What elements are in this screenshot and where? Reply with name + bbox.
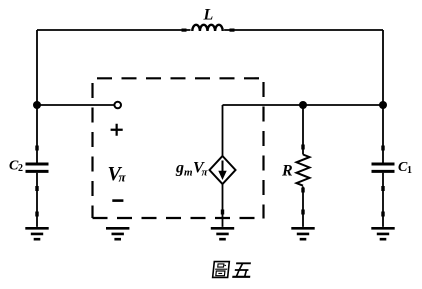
svg-text:π: π [119,169,127,184]
svg-text:m: m [184,167,193,179]
svg-text:1: 1 [407,165,412,176]
svg-text:R: R [281,163,293,180]
svg-text:L: L [203,7,214,24]
svg-text:2: 2 [18,163,23,174]
svg-text:π: π [202,167,209,179]
svg-text:g: g [175,160,184,177]
